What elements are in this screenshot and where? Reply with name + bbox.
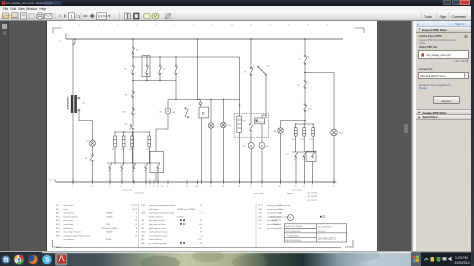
contact N15 a [122, 108, 134, 115]
svg-text:P4: P4 [132, 171, 134, 173]
wires S17 row to neutral [296, 158, 313, 183]
taskbar strip [0, 252, 474, 266]
svg-text:800W: 800W [106, 239, 111, 241]
svg-text:4: 4 [121, 186, 122, 188]
lamp E13 [330, 129, 343, 136]
wire K30 coil feed [238, 57, 240, 116]
wire H7 to contact S8.2 [91, 146, 93, 154]
contact P5 [144, 163, 148, 172]
contact N15 b [124, 124, 134, 130]
dashed enclosure fan unit [234, 114, 269, 138]
svg-text:1: 1 [302, 56, 303, 58]
node L1 supply stub [59, 34, 70, 44]
svg-text:2: 2 [120, 165, 121, 167]
svg-text:20: 20 [294, 186, 296, 188]
svg-text:current path: current path [134, 192, 144, 195]
resistor E11 [112, 136, 116, 151]
wire S7.1 to M13 [265, 75, 267, 118]
svg-text:2400W: 2400W [106, 232, 113, 234]
resistor E16 [146, 136, 150, 151]
svg-text:22: 22 [311, 186, 313, 188]
svg-text:1700W: 1700W [177, 216, 184, 218]
node E13 feed junction [304, 72, 306, 74]
svg-text:top element: top element [63, 212, 74, 215]
junction dots rail y78.4 [175, 99, 224, 100]
wire M3 to P6 box [156, 114, 168, 151]
wire S8.2 to neutral bus [91, 162, 93, 183]
junction dots neutral bus [72, 181, 335, 183]
wire S8 bank to fan rail [175, 81, 177, 100]
svg-text:oven lamp: oven lamp [63, 224, 73, 226]
wire M2 to neutral [261, 149, 263, 183]
resistor E14 [129, 136, 133, 151]
motor M2 [259, 143, 270, 149]
wire lamp H6 drop [210, 99, 212, 122]
svg-text:pilot lamp for oven: pilot lamp for oven [149, 227, 166, 230]
toolbar [0, 11, 471, 21]
svg-text:4: 4 [134, 114, 135, 116]
contact S7.1 [251, 65, 269, 76]
svg-text:current path: current path [122, 188, 132, 191]
switch bank S8 selector box [142, 56, 150, 77]
svg-text:cooling blower: cooling blower [149, 238, 162, 241]
wires heater rail drops [115, 132, 149, 136]
svg-text:5: 5 [157, 66, 158, 68]
svg-text:circulating fan motor: circulating fan motor [149, 234, 168, 237]
white page placeholder: schematic SVG inserted here [46, 21, 378, 252]
svg-text:19: 19 [222, 186, 224, 188]
wire rail to motor M3 [167, 99, 169, 108]
adobe reader active [55, 253, 68, 266]
wire main ladder through to neutral [132, 132, 134, 182]
wire M1 to neutral [250, 149, 252, 183]
motor M1 [243, 143, 254, 149]
skype [42, 254, 53, 265]
svg-text:13,72: 13,72 [131, 209, 137, 211]
contact S16 [303, 104, 311, 112]
svg-text:1400W max 2300W: 1400W max 2300W [177, 209, 195, 211]
svg-text:top element: top element [63, 238, 74, 241]
contact S17 c [302, 152, 314, 161]
svg-text:3600 max 2700W: 3600 max 2700W [101, 228, 117, 230]
wire bus to S7 chain [304, 39, 306, 55]
pin number labels [90, 56, 308, 167]
svg-text:1: 1 [72, 186, 73, 188]
svg-text:13: 13 [186, 186, 188, 188]
enclosure box S17 [306, 151, 316, 161]
svg-text:12/9/2014: 12/9/2014 [455, 261, 470, 265]
svg-text:18: 18 [238, 186, 240, 188]
wire transformer to neutral bus [72, 113, 74, 182]
pane scrollbar thumb [404, 124, 408, 133]
svg-text:3: 3 [130, 107, 131, 109]
contact S1 [244, 67, 253, 75]
wire bus to contact A7 [132, 39, 134, 47]
svg-text:grill heater: grill heater [63, 227, 73, 230]
svg-text:1:23 PM: 1:23 PM [455, 256, 468, 260]
wire H8 to neutral [279, 133, 281, 182]
svg-text:warming compartment lamp: warming compartment lamp [149, 212, 175, 215]
left sidebar [0, 21, 9, 252]
svg-text:air circulating motor: air circulating motor [149, 242, 167, 245]
wire bus to S1 [250, 39, 252, 67]
contact S17 a [285, 152, 298, 157]
contact S8 d [174, 57, 177, 81]
tray [421, 252, 474, 266]
legend column 1 [56, 204, 138, 241]
svg-text:4: 4 [148, 73, 149, 75]
wire bus to transformer [73, 39, 75, 95]
wire junction to lamp E13 [305, 73, 334, 130]
scrollbar white strip [411, 21, 417, 252]
wire E15 to neutral [222, 128, 224, 182]
svg-text:cooling blower relay: cooling blower relay [149, 231, 168, 234]
svg-text:6: 6 [306, 111, 307, 113]
create header [416, 109, 471, 115]
wire contact row rail [107, 162, 160, 164]
svg-text:bottom element: bottom element [149, 215, 164, 218]
firefox [28, 254, 39, 265]
legend squares markers col3 [320, 216, 325, 218]
contact S7 [298, 55, 309, 64]
svg-text:5: 5 [133, 186, 134, 188]
svg-text:1: 1 [248, 67, 249, 69]
wire A7 to node row [132, 54, 134, 57]
wire P6 box to neutral [155, 173, 157, 182]
wire bus drop x151.5 [196, 39, 198, 99]
svg-text:N5 172099: N5 172099 [307, 192, 316, 194]
svg-text:2: 2 [93, 160, 94, 162]
svg-text:2: 2 [306, 64, 307, 66]
svg-text:BxxNr 2702 180534: BxxNr 2702 180534 [285, 225, 302, 228]
svg-text:2: 2 [307, 83, 308, 85]
svg-text:11: 11 [166, 186, 168, 188]
svg-text:current path: current path [253, 192, 263, 195]
wire transformer secondary to H7 branch [79, 111, 93, 140]
svg-text:pilot lamp for oven: pilot lamp for oven [149, 223, 166, 226]
svg-text:grill heater: grill heater [149, 208, 159, 211]
svg-text:7: 7 [149, 186, 150, 188]
wire K30 coil to neutral [238, 132, 240, 182]
legend squares markers [180, 219, 185, 244]
svg-text:DB-1254L20/2GB: DB-1254L20/2GB [285, 240, 301, 242]
wire warm heater top rail [295, 123, 313, 125]
svg-text:10: 10 [161, 186, 163, 188]
contact P2 [108, 163, 112, 172]
svg-text:Sign: Sign [440, 15, 447, 19]
send header [416, 115, 471, 121]
svg-text:25W: 25W [106, 224, 110, 226]
svg-text:1300W: 1300W [106, 216, 113, 218]
svg-text:N5 160380: N5 160380 [307, 196, 316, 198]
windows flag tile [411, 252, 422, 266]
wires warm heaters to S17 row [295, 136, 313, 152]
frame corner bottom-left [52, 240, 60, 247]
junction dots row y59.5 [132, 80, 160, 81]
svg-text:7: 7 [173, 66, 174, 68]
svg-text:warming compartment heater: warming compartment heater [63, 234, 90, 237]
wire N15 to lower contact [132, 115, 134, 125]
junction dots contact row [114, 162, 149, 163]
svg-text:SA-30/1237C: SA-30/1237C [318, 236, 337, 240]
svg-text:3: 3 [109, 186, 110, 188]
wire S1 to relay contact [250, 76, 252, 125]
wire top supply bus [66, 38, 343, 40]
svg-text:16,6,7,8,10: 16,6,7,8,10 [270, 220, 281, 222]
svg-text:Blatt 1v1: Blatt 1v1 [318, 230, 325, 233]
svg-text:1: 1 [108, 165, 109, 167]
ruler column numbers [60, 25, 329, 27]
wire recombine row y59.5 [133, 80, 176, 82]
svg-text:10,11,7,8,10: 10,11,7,8,10 [269, 216, 281, 218]
resistor E22 [300, 128, 305, 141]
resistor block R [199, 107, 209, 118]
title block text [285, 225, 331, 242]
svg-text:2: 2 [252, 75, 253, 77]
title bar [0, 0, 471, 6]
contact P3 [120, 163, 124, 172]
svg-text:R: R [201, 111, 204, 116]
wire H8 drop [279, 121, 281, 128]
window bottom edge [0, 251, 471, 253]
node heater feed [132, 131, 133, 132]
title block frame [284, 224, 346, 242]
contact S8 a [124, 57, 135, 81]
svg-text:6: 6 [145, 186, 146, 188]
svg-text:/ 1: / 1 [76, 14, 81, 19]
wire M13 to motor M2 [262, 115, 266, 143]
wire H6 to neutral [210, 128, 212, 182]
node warm rail junction [304, 120, 305, 121]
svg-text:S: S [45, 258, 49, 264]
wire fan feeder rail y78.4 [168, 98, 240, 100]
svg-text:S7: S7 [298, 59, 300, 61]
svg-text:A5: A5 [267, 65, 269, 68]
contact P4 [132, 163, 136, 172]
menu bar [0, 6, 471, 12]
lamp E15 [220, 122, 231, 128]
wire contact to motor M1 [250, 131, 252, 143]
svg-text:oven lamp: oven lamp [63, 220, 73, 222]
contact A7 [131, 47, 139, 54]
resistor E12 [120, 136, 124, 151]
svg-text:3: 3 [302, 81, 303, 83]
svg-text:M: M [260, 144, 262, 148]
value label part numbers [307, 192, 316, 202]
relay contact K30.1 [249, 124, 253, 131]
wire S16 to warm rail [304, 112, 306, 125]
svg-text:18: 18 [260, 186, 262, 188]
svg-text:16: 16 [209, 186, 211, 188]
svg-text:Tools: Tools [424, 15, 432, 19]
switch S interlock [184, 108, 188, 118]
enclosure box P6 [150, 151, 164, 172]
svg-text:U17: U17 [297, 85, 300, 87]
svg-text:3: 3 [144, 66, 145, 68]
wires heater bottoms to contact row [115, 147, 149, 163]
junction dot K30 feed [238, 104, 239, 105]
svg-text:1900W: 1900W [106, 213, 113, 215]
svg-text:4: 4 [144, 165, 145, 167]
terminal phi [199, 100, 202, 107]
legend column separators [138, 203, 255, 247]
junction dots heater rail [114, 131, 149, 132]
wire ladder to S9 [132, 81, 134, 92]
relay coil K30 [236, 116, 246, 132]
lamp H6 [208, 123, 214, 129]
svg-text:4: 4 [306, 88, 307, 90]
wire neutral bottom bus [56, 181, 337, 183]
wire S9 to N15 [132, 98, 134, 108]
svg-text:6: 6 [161, 73, 162, 75]
svg-text:17: 17 [249, 186, 251, 188]
contact S8 c [158, 57, 166, 81]
svg-text:2: 2 [134, 73, 135, 75]
svg-text:1: 1 [130, 66, 131, 68]
svg-text:Pos: 09/23/2005: Pos: 09/23/2005 [318, 226, 332, 228]
svg-text:E20: E20 [292, 139, 295, 141]
svg-text:2702 180534-006: 2702 180534-006 [285, 231, 300, 233]
frame corner top-left [53, 28, 62, 33]
logo mark [287, 215, 293, 221]
wire warm rail to H8 [280, 120, 305, 122]
svg-text:b: b [171, 115, 172, 117]
right tools panel [416, 21, 471, 252]
contact S8 b [145, 57, 148, 81]
wire heater top rail [115, 131, 149, 133]
junction dots warm heater rail [295, 123, 314, 124]
transformer A1 [67, 95, 85, 113]
svg-text:N5 175273: N5 175273 [307, 200, 316, 202]
svg-text:3,4,4,5,6: 3,4,4,5,6 [273, 224, 282, 226]
svg-text:8: 8 [153, 186, 154, 188]
resistor E21 [309, 128, 314, 141]
wire distribution row y36 [133, 56, 240, 58]
svg-text:bottom element: bottom element [63, 215, 78, 218]
contact S17 b [294, 152, 306, 161]
svg-text:23: 23 [332, 186, 334, 188]
legend column 2 [141, 204, 202, 245]
terminal ticks neutral bus [73, 180, 334, 184]
contact S8.2 [84, 155, 93, 162]
svg-text:3,4,15: 3,4,15 [131, 205, 138, 207]
svg-text:S7.1: S7.1 [251, 67, 255, 69]
junction dots row y36 [132, 56, 176, 57]
svg-text:1: 1 [90, 155, 91, 157]
svg-text:diagram: diagram [286, 192, 293, 195]
svg-text:9: 9 [157, 186, 158, 188]
wire E13 to neutral [333, 136, 335, 182]
svg-text:8: 8 [177, 73, 178, 75]
lamp H7 [86, 140, 96, 146]
legend column 3 [258, 204, 290, 230]
svg-text:temperature limiter: temperature limiter [267, 208, 284, 211]
svg-text:1: 1 [130, 90, 131, 92]
svg-text:timer clock: timer clock [63, 204, 74, 207]
svg-text:S17: S17 [285, 154, 288, 156]
wires warm heater drops [295, 124, 313, 128]
contact P6 [156, 163, 160, 172]
svg-text:encircling oil heater: encircling oil heater [63, 231, 81, 234]
svg-text:M: M [250, 144, 252, 148]
svg-text:current path: current path [292, 188, 302, 191]
wire U17 to S16 [304, 88, 306, 104]
svg-text:100%: 100% [98, 15, 108, 19]
motor M3 [159, 108, 175, 114]
svg-text:Comment: Comment [452, 15, 467, 19]
svg-text:17 HE14062B: 17 HE14062B [287, 235, 300, 237]
sign-in band [416, 21, 471, 27]
wire R to neutral bus [200, 118, 202, 182]
wires contacts to neutral bus [110, 169, 158, 182]
frame corner top-right [355, 28, 364, 33]
terminal numbers neutral bus [72, 186, 335, 188]
wire lamp E15 drop [222, 99, 224, 122]
svg-text:5: 5 [156, 165, 157, 167]
svg-text:grill lamp for oven: grill lamp for oven [149, 219, 165, 222]
svg-text:a: a [165, 106, 166, 108]
svg-text:E21: E21 [309, 139, 312, 141]
node 47 neutral entry [49, 180, 56, 183]
start orb [1, 255, 10, 264]
svg-text:warming compartment heater: warming compartment heater [149, 204, 176, 207]
svg-text:E22: E22 [300, 139, 303, 141]
wire S7 to junction [304, 65, 306, 81]
legend bottom rule [56, 247, 341, 249]
wire S17 contact rail [292, 151, 316, 153]
junction dots on top bus [74, 38, 306, 40]
export header [416, 27, 471, 34]
contact S9 [125, 91, 135, 98]
frame corner bottom-right [345, 240, 353, 247]
svg-text:3: 3 [132, 165, 133, 167]
svg-text:5: 5 [302, 104, 303, 106]
electronics module M13 [254, 118, 264, 124]
title block dividers [284, 224, 346, 242]
contact U17 [297, 81, 309, 89]
lamp H8 [273, 128, 283, 134]
svg-text:21: 21 [302, 186, 304, 188]
chrome [14, 254, 25, 265]
svg-text:2: 2 [134, 97, 135, 99]
resistor E20 [292, 128, 297, 141]
svg-text:S16: S16 [308, 109, 311, 111]
